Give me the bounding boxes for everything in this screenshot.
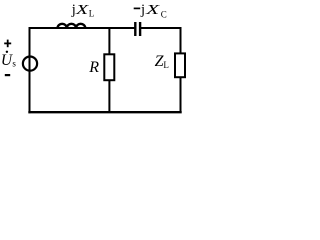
wire: top rail left segment (source to capacitor left plate) — [30, 27, 135, 29]
svg-text:X: X — [75, 3, 89, 18]
resistor R box — [104, 54, 114, 80]
wire: bottom rail — [30, 111, 181, 113]
capacitor C plate left — [134, 22, 136, 36]
wire: right vertical bottom stub — [180, 77, 182, 112]
wire: left vertical (through source) — [29, 28, 31, 112]
wire: top rail right segment (capacitor to right corner) — [141, 27, 180, 29]
minus sign of source — [5, 74, 10, 76]
wire: R branch top stub — [108, 28, 110, 54]
inductor L (jXL) humps — [58, 24, 86, 28]
label ZL — [155, 53, 169, 70]
svg-text:j: j — [140, 2, 145, 18]
svg-text:L: L — [163, 60, 169, 70]
wire: right vertical top stub — [180, 28, 182, 53]
label jXL — [71, 2, 95, 19]
voltage source US circle — [23, 57, 37, 71]
svg-text:R: R — [88, 59, 99, 76]
svg-text:X: X — [145, 3, 160, 18]
capacitor C plate right — [139, 22, 141, 36]
label R — [88, 59, 99, 76]
load ZL box — [175, 53, 185, 77]
label -jXC — [134, 2, 167, 20]
svg-text:C: C — [161, 9, 167, 19]
label US (phasor U with dot) — [1, 51, 17, 70]
plus sign of source — [4, 40, 11, 48]
svg-text:s: s — [12, 59, 16, 69]
svg-text:L: L — [89, 8, 95, 18]
wire: R branch bottom stub — [108, 80, 110, 112]
